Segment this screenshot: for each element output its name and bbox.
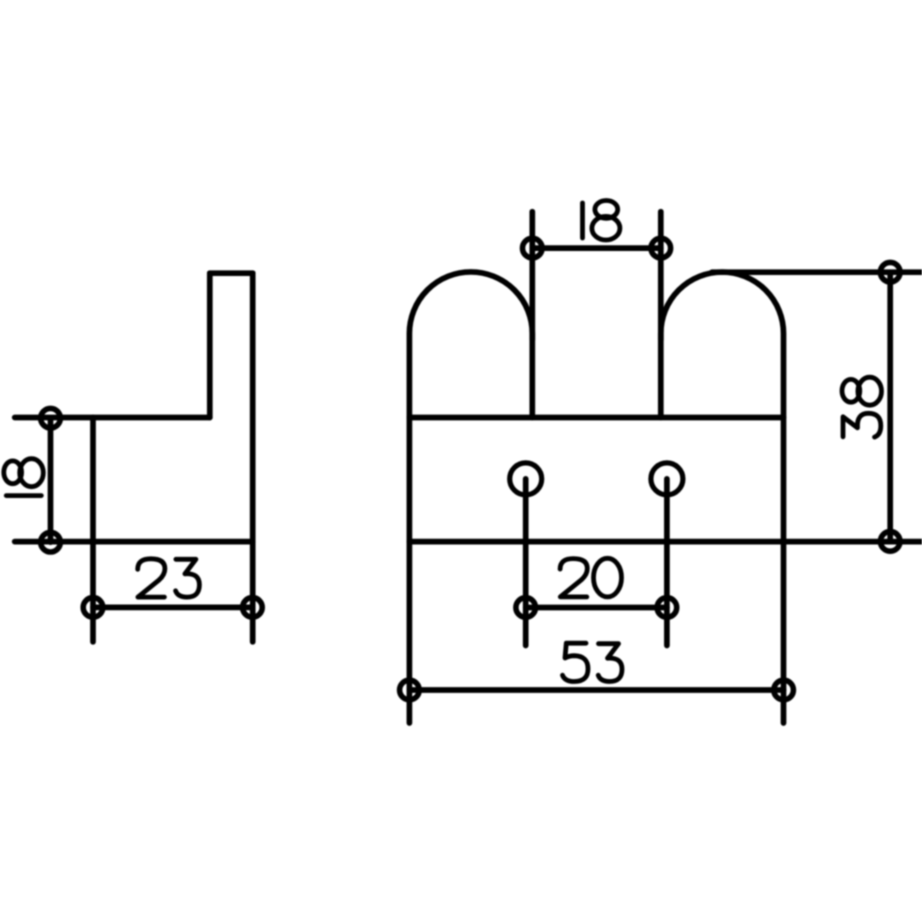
dimension 20 end circle right	[657, 598, 677, 618]
dimension 18 (top) label	[583, 201, 620, 241]
mounting hole left	[510, 463, 542, 495]
dimension 18 (top) end circle right	[651, 238, 671, 258]
dimension 18 (side view) rotated label	[4, 459, 44, 496]
front view: left edge with left arch	[409, 272, 532, 723]
dimension 38 end circle top	[880, 262, 900, 282]
dimension 38 end circle bottom	[880, 532, 900, 552]
side view: hook left face + extension line for 23	[90, 418, 96, 642]
dimension 18 (top) line	[532, 245, 661, 251]
side view: plate right edge + extension line for 23	[250, 273, 256, 642]
dimension 18 (side view) end circle bottom	[41, 532, 61, 552]
front view: notch right side + extension for top 18	[658, 212, 664, 418]
side view: hook top edge + left extension line for 18	[15, 415, 210, 421]
dimension 20 label	[560, 558, 621, 597]
front view: plate top line	[409, 415, 783, 421]
mounting hole right	[651, 463, 683, 495]
front view: right edge with right arch	[661, 272, 784, 723]
extension line from arch top to 38 dimension	[712, 269, 922, 275]
dimension 20 line	[526, 605, 667, 611]
front view: plate bottom line + extension to 38 dimension	[409, 539, 922, 545]
side view: bottom edge + left extension line for 18	[15, 539, 253, 545]
dimension 23 label	[138, 559, 200, 597]
dimension 38 line	[887, 272, 893, 541]
front view: notch left side + extension for top 18	[529, 212, 535, 418]
side view: plate left edge	[207, 273, 213, 417]
dimension 23 line	[93, 605, 252, 611]
dimension 53 end circle left	[400, 680, 420, 700]
dimension 23 end circle right	[243, 598, 263, 618]
side view: plate top cap	[210, 270, 253, 276]
dimension 18 (side view) end circle top	[41, 408, 61, 428]
dimension 18 (top) end circle left	[523, 238, 543, 258]
extension line from left hole	[523, 479, 529, 646]
dimension 18 (side view) line	[48, 418, 54, 542]
dimension 20 end circle left	[516, 598, 536, 618]
dimension 53 end circle right	[774, 680, 794, 700]
dimension 38 rotated label	[842, 377, 882, 437]
extension line from right hole	[664, 479, 670, 646]
dimension 53 label	[563, 643, 623, 681]
dimension 23 end circle left	[83, 598, 103, 618]
dimension 53 line	[409, 687, 783, 693]
